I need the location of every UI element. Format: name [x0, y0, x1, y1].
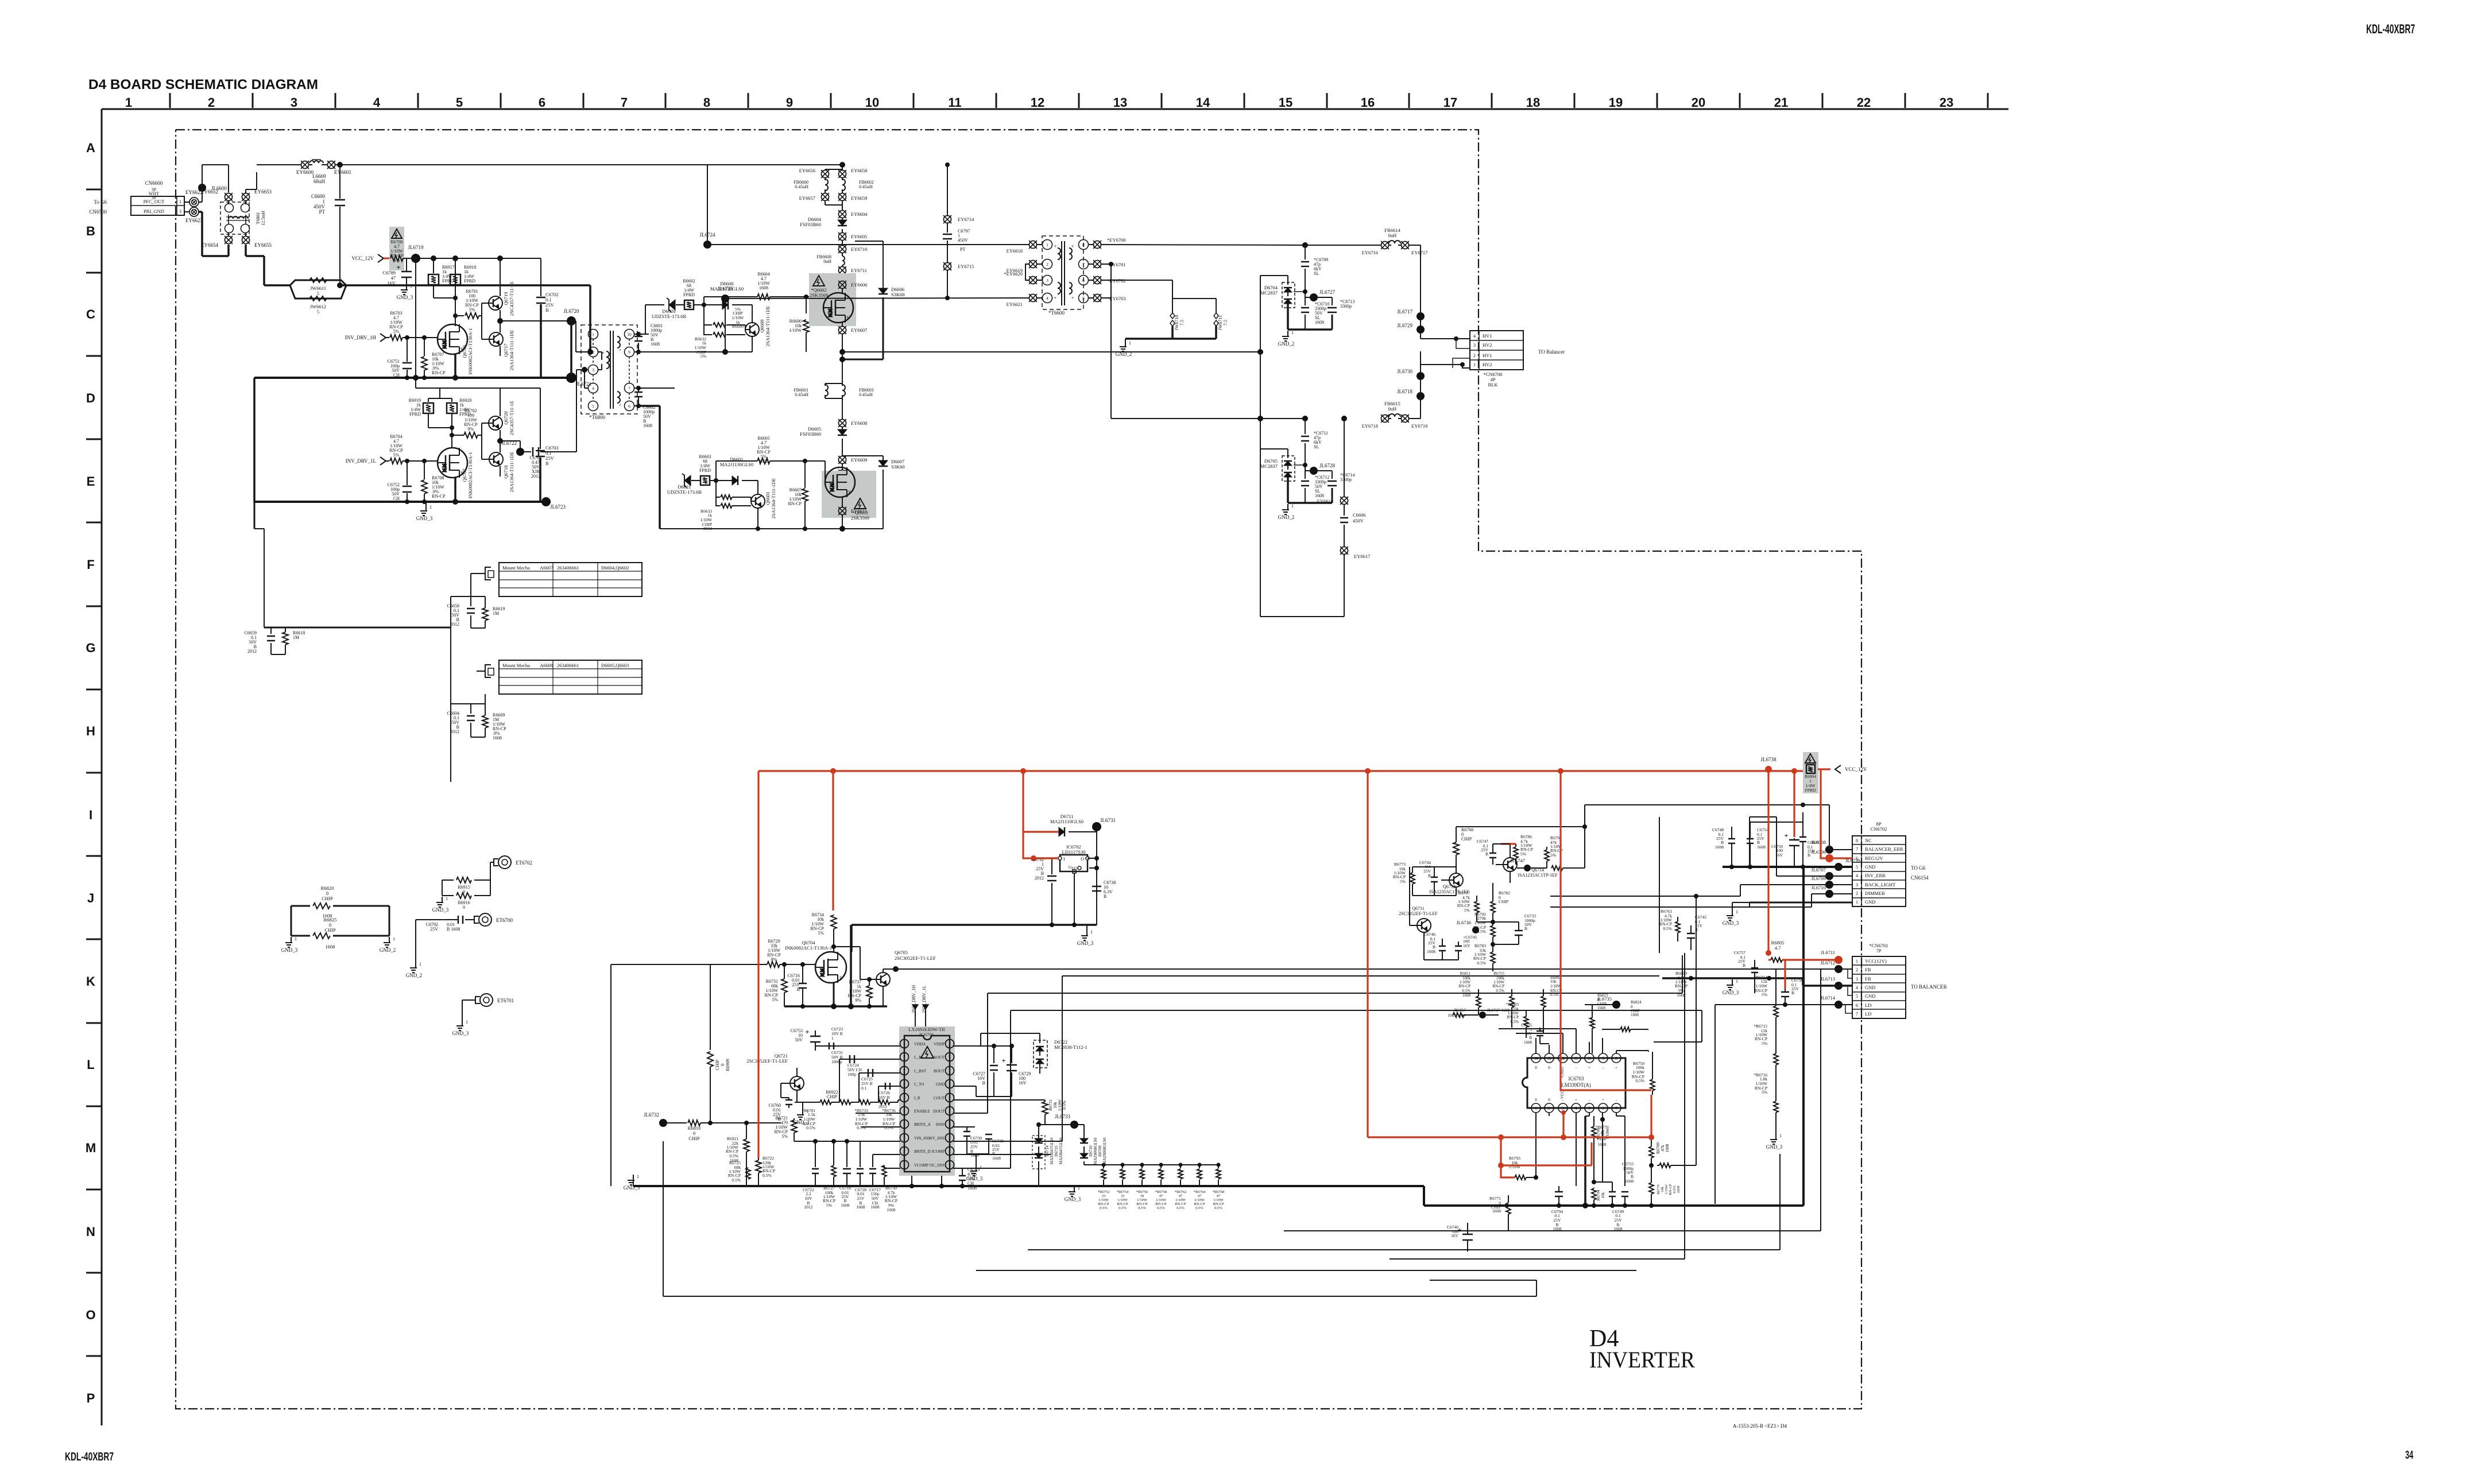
capacitor C6789 — [382, 258, 412, 286]
svg-text:*R6803: *R6803 — [1506, 1002, 1519, 1007]
svg-text:C_BST: C_BST — [914, 1069, 927, 1074]
capacitor C6713 — [1314, 297, 1354, 330]
svg-text:4: 4 — [1856, 985, 1858, 990]
svg-text:10: 10 — [627, 332, 632, 337]
svg-text:E: E — [87, 474, 95, 489]
svg-text:Q6600: Q6600 — [759, 319, 765, 332]
svg-text:1: 1 — [831, 1036, 834, 1041]
svg-text:1608: 1608 — [759, 285, 768, 290]
resistor R6606 wire — [806, 307, 807, 352]
node JL6731 — [1092, 817, 1116, 925]
capacitor C6604 R6609 pair — [447, 671, 506, 741]
svg-text:5%: 5% — [700, 354, 706, 359]
node JL6738 — [1761, 757, 1777, 773]
resistor R6763 — [1659, 909, 1680, 941]
svg-text:R6755: R6755 — [1493, 971, 1504, 976]
svg-text:ET6702: ET6702 — [516, 860, 532, 866]
svg-text:B: B — [545, 307, 549, 313]
svg-text:12: 12 — [1561, 1056, 1566, 1061]
svg-text:R6824: R6824 — [1631, 1000, 1642, 1005]
capacitor C6747 — [1477, 839, 1496, 865]
svg-text:INV_DRV_1L: INV_DRV_1L — [346, 458, 376, 464]
diode D6711 — [1023, 813, 1097, 836]
resistor R6824 — [1602, 1000, 1648, 1032]
svg-text:*R6752: *R6752 — [1098, 1190, 1110, 1194]
svg-text:J: J — [87, 891, 94, 905]
svg-text:33: 33 — [1121, 1194, 1125, 1198]
ground GND_3 ET6701 — [452, 1020, 469, 1036]
net INV_DRV_1L entry — [346, 457, 389, 465]
capacitor C6710 — [1301, 297, 1329, 330]
svg-text:16V: 16V — [1463, 943, 1471, 948]
svg-text:0: 0 — [463, 905, 465, 910]
wire IC6701 left pins — [794, 1046, 900, 1168]
svg-text:JL6714: JL6714 — [1821, 995, 1836, 1001]
connector CN6700 — [1470, 331, 1565, 388]
svg-text:RN-CP: RN-CP — [1507, 1015, 1519, 1020]
capacitor C6745 — [1442, 935, 1477, 960]
jumper EY6605 — [838, 233, 867, 245]
net VCC_12V right entry — [1835, 765, 1867, 773]
resistor R6779 — [1649, 1165, 1681, 1206]
svg-text:2: 2 — [208, 95, 215, 110]
svg-text:NC: NC — [1865, 838, 1872, 843]
ground GND_3 loop left — [281, 936, 298, 953]
svg-text:7.5: 7.5 — [1179, 320, 1185, 326]
svg-text:GND: GND — [1865, 985, 1875, 990]
svg-text:4.7: 4.7 — [1775, 945, 1781, 951]
capacitor C6711 branch — [1301, 416, 1328, 471]
resistor R6917 — [428, 258, 455, 298]
svg-text:SL: SL — [1314, 271, 1319, 276]
svg-text:ET6701: ET6701 — [497, 998, 514, 1003]
jumper EY6714 capacitor C6797 column — [943, 162, 974, 300]
svg-text:*R6754: *R6754 — [1117, 1190, 1129, 1194]
svg-text:MAZ8068GLS0: MAZ8068GLS0 — [1102, 1137, 1107, 1164]
svg-text:GND_3: GND_3 — [416, 516, 433, 521]
svg-text:1/10W: 1/10W — [1117, 1198, 1128, 1202]
svg-text:EY6715: EY6715 — [958, 264, 974, 269]
svg-text:LD: LD — [1865, 1002, 1871, 1008]
svg-text:JL6711: JL6711 — [1821, 950, 1835, 955]
svg-text:2012: 2012 — [1035, 875, 1044, 881]
node JL6733 — [1045, 1114, 1078, 1129]
ground GND_3 bank — [1065, 1125, 1081, 1202]
resistor R6793 — [1509, 1156, 1538, 1186]
svg-text:LM339DT(A): LM339DT(A) — [1561, 1082, 1591, 1088]
jumper JW6710 JW6711 — [1101, 280, 1228, 339]
svg-text:EY6659: EY6659 — [851, 195, 867, 201]
svg-text:10: 10 — [865, 95, 879, 110]
svg-text:5: 5 — [317, 309, 319, 315]
transistor Q6706 — [438, 324, 473, 374]
node JL6722 — [501, 440, 524, 456]
resistor R6920 — [447, 398, 471, 437]
ferrite bead FB6615 — [1362, 401, 1428, 429]
svg-text:B: B — [545, 460, 549, 466]
wire Q pair leg2 — [440, 388, 520, 476]
gate drive Q6601 cluster — [667, 436, 825, 531]
capacitor C6746 — [1424, 932, 1446, 960]
svg-text:JW6711: JW6711 — [1218, 315, 1223, 330]
svg-text:1608: 1608 — [1715, 844, 1724, 850]
svg-text:GND: GND — [936, 1082, 945, 1087]
svg-text:RN-CP: RN-CP — [1098, 1202, 1109, 1206]
svg-text:5%: 5% — [781, 1134, 788, 1139]
svg-text:Q6707: Q6707 — [462, 468, 467, 482]
capacitor C6719 — [959, 1167, 1011, 1191]
jumper EY6619 — [1007, 260, 1042, 273]
svg-text:GND_3: GND_3 — [432, 907, 449, 913]
svg-text:9: 9 — [628, 350, 630, 355]
svg-text:2012: 2012 — [878, 1104, 887, 1109]
wire to CN6700 pin1 — [1421, 351, 1470, 370]
svg-text:3: 3 — [592, 367, 594, 373]
svg-text:F: F — [87, 557, 94, 572]
model label top right — [2366, 22, 2415, 36]
svg-text:5: 5 — [317, 291, 319, 296]
svg-text:1608: 1608 — [1492, 1208, 1501, 1214]
svg-text:33k: 33k — [1550, 979, 1557, 984]
diode D6705 — [1260, 449, 1305, 503]
connector CN6600 input table — [89, 180, 184, 215]
svg-text:22: 22 — [1857, 95, 1871, 110]
svg-text:S: S — [839, 975, 842, 981]
resistor R6790 R6794 column — [1585, 1116, 1610, 1206]
wire signal row J — [975, 953, 1702, 1168]
svg-text:1M: 1M — [293, 635, 299, 640]
svg-text:0uH: 0uH — [1388, 233, 1397, 238]
diode D6620 — [638, 298, 686, 334]
svg-text:*EY6620: *EY6620 — [1004, 271, 1023, 277]
svg-text:0.5%: 0.5% — [1462, 989, 1470, 993]
svg-text:D6710: D6710 — [1089, 1145, 1093, 1157]
svg-text:DOUT: DOUT — [934, 1109, 945, 1114]
svg-text:2SA1364-T111-1DE: 2SA1364-T111-1DE — [771, 478, 776, 519]
net INV_DRV_1H entry — [345, 334, 389, 342]
svg-text:RN-CP: RN-CP — [1117, 1202, 1128, 1206]
svg-text:MC2837: MC2837 — [1260, 463, 1278, 469]
svg-text:INV_DRV_1H: INV_DRV_1H — [345, 335, 377, 340]
svg-text:2SA1364-T111-1DE: 2SA1364-T111-1DE — [509, 452, 514, 493]
svg-text:BLK: BLK — [1488, 382, 1499, 388]
svg-text:1: 1 — [1078, 1185, 1080, 1191]
svg-text:Q6720: Q6720 — [503, 411, 509, 424]
svg-text:*T6600: *T6600 — [1048, 310, 1065, 316]
svg-text:HV2: HV2 — [1483, 362, 1492, 367]
diode D6606 — [842, 241, 905, 359]
jumper EY6700 — [1088, 237, 1305, 249]
table Mount Mecha A6608 — [485, 660, 642, 694]
wire CN6701 FB pins — [1845, 969, 1852, 1013]
node JL6706 — [1812, 849, 1834, 862]
svg-text:GND: GND — [1865, 899, 1875, 905]
svg-text:0.1: 0.1 — [861, 1086, 867, 1091]
svg-text:LD1117S30: LD1117S30 — [1062, 849, 1086, 855]
D4 INVERTER title — [1589, 1326, 1695, 1373]
node JL6712 — [896, 960, 1852, 973]
capacitor C6709 branch — [1301, 242, 1328, 297]
capacitor C6703 — [500, 388, 559, 502]
svg-text:JL6737 1608: JL6737 1608 — [1487, 1008, 1510, 1013]
svg-text:+: + — [1001, 1056, 1005, 1065]
capacitor C6755 — [1621, 1161, 1634, 1206]
wire Q6706 drain source — [452, 258, 458, 381]
svg-text:C6606: C6606 — [1353, 512, 1366, 518]
jumper EY6652 — [201, 189, 233, 201]
svg-text:EY6714: EY6714 — [958, 216, 974, 222]
svg-text:UDZSTE-173.6B: UDZSTE-173.6B — [667, 489, 702, 495]
resistor R6725 — [728, 1156, 750, 1186]
svg-text:1: 1 — [1473, 362, 1476, 367]
svg-text:A6607: A6607 — [540, 565, 553, 571]
svg-text:0.45uH: 0.45uH — [795, 184, 808, 189]
wire IC6702 ground bus — [852, 923, 1097, 952]
capacitor C6702 — [536, 258, 559, 378]
ground GND_3 leg2 — [416, 502, 433, 521]
svg-text:JL6725: JL6725 — [718, 286, 734, 292]
svg-text:0: 0 — [720, 1064, 725, 1066]
svg-text:0.5%: 0.5% — [732, 1177, 741, 1183]
svg-text:JL6731: JL6731 — [1100, 817, 1116, 823]
resistor R6700 — [389, 227, 404, 270]
svg-text:1: 1 — [592, 332, 594, 337]
jumper EY6655 — [242, 236, 272, 248]
wire VCC rail — [403, 255, 541, 378]
wire INV_ERR run — [1659, 817, 1829, 876]
svg-text:EY6716: EY6716 — [1362, 250, 1378, 255]
sheet reference number — [1733, 1423, 1787, 1429]
resistor R6781 — [802, 1100, 859, 1130]
svg-text:EY6604: EY6604 — [851, 211, 868, 217]
svg-text:JL6729: JL6729 — [1397, 323, 1413, 328]
resistor R6721 — [774, 1115, 797, 1141]
wire Q6704 block — [784, 925, 887, 1009]
capacitor C6794 — [1536, 1186, 1576, 1231]
svg-text:1/10W: 1/10W — [1156, 1198, 1167, 1202]
relay transformer T6801 — [220, 202, 266, 234]
jumper EY6701 — [1088, 260, 1126, 268]
svg-text:5%: 5% — [1464, 908, 1470, 913]
svg-text:VCC(12V): VCC(12V) — [1865, 958, 1887, 964]
svg-text:1: 1 — [1856, 900, 1858, 905]
svg-text:23: 23 — [1940, 95, 1953, 110]
wire gnd riser to CN6702 — [1802, 867, 1805, 1206]
resistor R6921 — [726, 1121, 749, 1186]
svg-text:GND_2: GND_2 — [406, 972, 423, 978]
svg-text:5%: 5% — [1762, 992, 1767, 997]
ground GND_3 CN6701 — [1723, 979, 1739, 995]
svg-text:MAZ8047GLS0: MAZ8047GLS0 — [1050, 1137, 1054, 1164]
svg-text:EY6600: EY6600 — [296, 169, 314, 175]
svg-text:16V: 16V — [387, 280, 396, 286]
ground GND_3 C6730 — [966, 1165, 983, 1181]
svg-text:0uH: 0uH — [823, 259, 831, 264]
svg-text:12: 12 — [1031, 95, 1044, 110]
jumper EY6607 — [838, 323, 867, 352]
svg-text:D6709: D6709 — [1098, 1145, 1102, 1157]
svg-text:RN-CP: RN-CP — [1492, 984, 1504, 989]
resistor R6708 — [421, 461, 446, 502]
svg-text:FPRD: FPRD — [699, 468, 711, 473]
resistor R6701 — [455, 289, 482, 319]
svg-text:C_R: C_R — [914, 1055, 922, 1060]
IC IC6703 LM339 — [1523, 1053, 1625, 1113]
wire INV_DRV outputs — [911, 985, 928, 1026]
capacitor C6727 — [973, 1033, 998, 1096]
svg-text:RN-CP: RN-CP — [432, 370, 446, 375]
svg-text:RN-CP: RN-CP — [1155, 1202, 1167, 1206]
svg-text:+: + — [1054, 295, 1056, 301]
svg-text:5: 5 — [1856, 994, 1858, 999]
svg-text:6: 6 — [628, 404, 630, 409]
svg-text:B: B — [86, 224, 95, 238]
svg-text:Q6719: Q6719 — [503, 292, 509, 305]
svg-text:+: + — [1054, 243, 1056, 249]
svg-text:4: 4 — [1473, 334, 1476, 339]
svg-text:5%: 5% — [393, 452, 400, 458]
wire Q pair to rail — [497, 258, 571, 356]
svg-text:CN6500: CN6500 — [89, 209, 107, 215]
svg-text:JL6732: JL6732 — [644, 1112, 659, 1118]
transistor Q6600 — [675, 305, 771, 352]
resistor R6606 — [789, 319, 809, 339]
svg-text:ISA1235AC1TP-1EF: ISA1235AC1TP-1EF — [1518, 873, 1558, 878]
wire Q6602 source to mid — [839, 349, 845, 379]
resistor R6750 — [1632, 1052, 1655, 1095]
svg-text:100p: 100p — [847, 1072, 856, 1077]
diode D6600 — [704, 281, 749, 329]
wire CN6702 GND bus — [1723, 865, 1852, 907]
svg-text:47: 47 — [1179, 1194, 1183, 1198]
svg-text:1608: 1608 — [1631, 1013, 1639, 1017]
svg-text:0.5%: 0.5% — [1176, 1206, 1185, 1210]
svg-text:10k: 10k — [1661, 1186, 1665, 1192]
transistor Q6721 — [746, 1053, 804, 1102]
ground GND_2 upper filter — [1278, 330, 1295, 347]
jumper EY6616 capacitor C6606 column — [1257, 416, 1370, 617]
svg-text:PT: PT — [960, 247, 965, 252]
svg-text:2SK3569: 2SK3569 — [851, 515, 869, 521]
wire top HV bus — [294, 162, 842, 168]
wire gnd bus right — [1424, 1186, 1803, 1208]
svg-text:FPRD: FPRD — [442, 278, 454, 284]
resistor R6803 — [1506, 1002, 1528, 1038]
svg-text:EY6616: EY6616 — [1317, 498, 1333, 504]
svg-text:B: B — [1524, 926, 1527, 931]
svg-text:*R6762: *R6762 — [1175, 1190, 1187, 1194]
jumper EY6611 — [838, 497, 867, 529]
svg-text:1608: 1608 — [1597, 1006, 1606, 1010]
svg-text:1608: 1608 — [1462, 993, 1471, 998]
resistor R6919 — [409, 398, 452, 428]
svg-text:68uH: 68uH — [314, 179, 326, 184]
svg-text:1: 1 — [1046, 242, 1048, 247]
resistor R6797 — [1457, 890, 1479, 922]
wire BALANCER_ERR run — [1582, 803, 1829, 868]
svg-text:RN-CP: RN-CP — [1175, 1202, 1186, 1206]
svg-text:JL6736: JL6736 — [1457, 920, 1472, 925]
node JL6711 — [1821, 950, 1843, 964]
svg-text:B 1608: B 1608 — [447, 927, 460, 932]
ferrite bead FB6614 — [1362, 227, 1428, 255]
jumper EY6609 — [838, 456, 867, 470]
ground GND_2 C6792 — [406, 962, 423, 978]
svg-text:AOUT: AOUT — [934, 1055, 945, 1060]
svg-text:BACK_LIGHT: BACK_LIGHT — [1865, 882, 1896, 888]
svg-text:CN6600: CN6600 — [145, 180, 163, 186]
svg-text:RN-CP: RN-CP — [432, 494, 446, 499]
svg-text:HV1: HV1 — [1483, 352, 1492, 358]
svg-text:GND_2: GND_2 — [380, 947, 396, 953]
svg-text:+: + — [1562, 1065, 1564, 1070]
IC IC6701 LX1692EIDW-TR — [899, 1026, 955, 1176]
svg-text:VIN_SNS: VIN_SNS — [914, 1136, 931, 1141]
resistor R6771 — [1489, 1195, 1511, 1231]
svg-text:9: 9 — [786, 95, 793, 110]
resistor R6731 — [764, 964, 787, 1006]
wire lower secondary to Q6601 — [634, 386, 758, 529]
svg-text:0.5%: 0.5% — [1550, 993, 1559, 997]
jumper JW6612 — [290, 285, 346, 315]
node JL6709 — [1812, 875, 1853, 889]
svg-text:Q6705: Q6705 — [895, 950, 908, 955]
wire red IC6703 pin3 — [1561, 1110, 1566, 1137]
svg-text:3: 3 — [1856, 977, 1858, 982]
svg-text:16V: 16V — [1775, 853, 1783, 858]
jumper EY6702 — [1088, 276, 1129, 284]
svg-text:P: P — [87, 1391, 95, 1405]
svg-text:EY6655: EY6655 — [254, 242, 272, 248]
svg-text:GND_3: GND_3 — [624, 1185, 640, 1191]
wire C6709 gnd bus — [1288, 328, 1332, 331]
svg-text:I_R: I_R — [914, 1096, 920, 1101]
svg-text:EY6608: EY6608 — [851, 420, 867, 426]
svg-text:B: B — [1808, 853, 1810, 858]
svg-text:10k: 10k — [1601, 1192, 1605, 1198]
svg-text:0.5%: 0.5% — [1496, 989, 1504, 993]
svg-text:14: 14 — [1534, 1056, 1539, 1061]
svg-text:5%: 5% — [1520, 851, 1526, 857]
svg-text:MAZ8047GLS0: MAZ8047GLS0 — [1059, 1137, 1063, 1164]
capacitor C6740 — [1447, 1223, 1473, 1251]
svg-text:1608: 1608 — [1524, 1040, 1532, 1045]
resistor R6789 — [1649, 1138, 1670, 1168]
svg-text:2SC3052EF-T1-LEF: 2SC3052EF-T1-LEF — [1399, 911, 1438, 916]
svg-text:8: 8 — [1856, 838, 1858, 843]
svg-text:C6735: C6735 — [1521, 1023, 1532, 1028]
svg-text:JL6718: JL6718 — [1397, 389, 1413, 394]
svg-text:*R6776: *R6776 — [1595, 1125, 1609, 1130]
svg-text:VCOMP: VCOMP — [914, 1163, 928, 1168]
svg-text:7: 7 — [1082, 262, 1085, 267]
capacitor C6732 — [1031, 855, 1058, 925]
resistor R6811 — [1458, 971, 1481, 1015]
svg-text:+: + — [1588, 1065, 1590, 1070]
capacitor C6748 — [1712, 827, 1735, 867]
svg-text:ENABLE: ENABLE — [914, 1109, 930, 1114]
resistor R6737 — [834, 947, 872, 1006]
wire to CN6700 pin4 — [1421, 336, 1470, 348]
svg-text:4: 4 — [1856, 873, 1858, 878]
node JL6717 — [1397, 309, 1425, 326]
svg-text:6: 6 — [1602, 1106, 1604, 1111]
svg-text:GND_3: GND_3 — [966, 1176, 983, 1181]
svg-text:B: B — [1428, 873, 1431, 878]
svg-text:ISNS: ISNS — [936, 1122, 945, 1127]
svg-text:1: 1 — [1535, 1106, 1537, 1111]
transistor Q6712 — [1429, 873, 1469, 894]
